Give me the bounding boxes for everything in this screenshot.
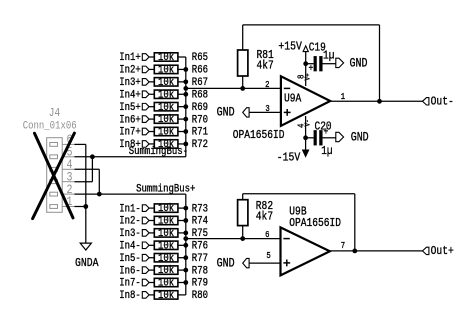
svg-text:+15V: +15V — [278, 41, 302, 54]
svg-text:In3-: In3- — [119, 228, 141, 240]
svg-text:Out-: Out- — [431, 96, 454, 109]
svg-text:R65: R65 — [192, 52, 208, 64]
svg-text:In8-: In8- — [119, 290, 141, 302]
svg-text:J4: J4 — [49, 107, 60, 120]
svg-text:10k: 10k — [158, 240, 174, 253]
svg-text:3: 3 — [265, 104, 269, 114]
svg-text:1µ: 1µ — [321, 145, 332, 158]
svg-text:R76: R76 — [192, 241, 208, 253]
svg-text:10k: 10k — [158, 289, 174, 302]
svg-text:In7+: In7+ — [119, 127, 141, 139]
svg-text:R71: R71 — [192, 127, 208, 139]
svg-text:4k7: 4k7 — [256, 211, 273, 224]
svg-text:10k: 10k — [158, 227, 174, 240]
svg-text:R79: R79 — [192, 278, 208, 290]
svg-text:+: + — [309, 62, 314, 74]
svg-text:In4-: In4- — [119, 241, 141, 253]
svg-text:1µ: 1µ — [323, 50, 334, 63]
svg-text:R73: R73 — [192, 204, 208, 216]
svg-text:10k: 10k — [158, 215, 174, 228]
svg-text:R68: R68 — [192, 90, 208, 102]
svg-text:R78: R78 — [192, 266, 208, 278]
svg-text:R72: R72 — [192, 139, 208, 151]
svg-text:In2-: In2- — [119, 216, 141, 228]
svg-text:R66: R66 — [192, 65, 208, 77]
svg-text:10k: 10k — [158, 76, 174, 89]
svg-text:10k: 10k — [158, 101, 174, 114]
svg-text:Conn_01x06: Conn_01x06 — [23, 121, 77, 133]
svg-text:R70: R70 — [192, 115, 208, 127]
svg-text:1: 1 — [341, 93, 345, 103]
svg-text:10k: 10k — [158, 252, 174, 265]
svg-text:R77: R77 — [192, 253, 208, 265]
svg-text:10k: 10k — [158, 202, 174, 215]
svg-text:In7-: In7- — [119, 278, 141, 290]
svg-text:In5+: In5+ — [119, 102, 141, 114]
svg-text:In4+: In4+ — [119, 90, 141, 102]
svg-text:10k: 10k — [158, 113, 174, 126]
svg-text:GND: GND — [351, 132, 369, 145]
svg-text:GNDA: GNDA — [75, 257, 99, 270]
svg-text:6: 6 — [265, 230, 269, 240]
svg-text:R74: R74 — [192, 216, 208, 228]
svg-text:In6+: In6+ — [119, 115, 141, 127]
svg-text:U9A: U9A — [284, 93, 302, 106]
svg-text:10k: 10k — [158, 277, 174, 290]
svg-text:10k: 10k — [158, 51, 174, 64]
svg-text:3: 3 — [67, 172, 73, 185]
svg-text:In2+: In2+ — [119, 65, 141, 77]
svg-text:2: 2 — [67, 184, 73, 197]
svg-text:In6-: In6- — [119, 266, 141, 278]
svg-text:In3+: In3+ — [119, 77, 141, 89]
svg-text:4: 4 — [67, 159, 73, 172]
svg-text:In1-: In1- — [119, 204, 141, 216]
svg-text:GND: GND — [217, 257, 235, 270]
svg-text:5: 5 — [266, 251, 270, 261]
svg-text:In1+: In1+ — [119, 52, 141, 64]
svg-text:GND: GND — [350, 57, 368, 70]
svg-text:R67: R67 — [192, 77, 208, 89]
svg-text:10k: 10k — [158, 264, 174, 277]
svg-text:GND: GND — [217, 107, 235, 120]
svg-text:10k: 10k — [158, 126, 174, 139]
svg-text:4k7: 4k7 — [257, 60, 274, 73]
svg-text:R69: R69 — [192, 102, 208, 114]
svg-text:2: 2 — [265, 80, 269, 90]
svg-text:OPA1656ID: OPA1656ID — [233, 129, 285, 142]
svg-text:10k: 10k — [158, 89, 174, 102]
svg-text:Out+: Out+ — [431, 245, 454, 258]
svg-text:+: + — [324, 126, 329, 138]
svg-text:7: 7 — [341, 242, 345, 252]
svg-text:In5-: In5- — [119, 253, 141, 265]
svg-text:-15V: -15V — [277, 151, 301, 164]
svg-text:R80: R80 — [192, 290, 208, 302]
svg-text:10k: 10k — [158, 64, 174, 77]
svg-text:OPA1656ID: OPA1656ID — [289, 217, 341, 230]
